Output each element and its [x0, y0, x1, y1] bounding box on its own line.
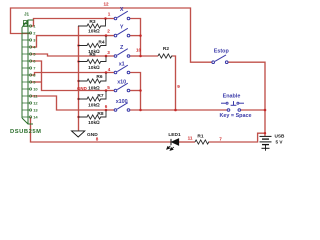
switch x100 — [114, 103, 130, 112]
resistor R4 10k — [78, 36, 106, 48]
svg-text:Estop: Estop — [214, 48, 230, 54]
pin 7 — [22, 67, 31, 69]
junction GND bus R7 — [77, 98, 79, 100]
svg-text:10kΩ: 10kΩ — [88, 120, 100, 126]
svg-text:5 V: 5 V — [276, 139, 284, 144]
svg-text:R5: R5 — [89, 52, 95, 58]
wire pin 9 stub joins row 5 riser — [31, 81, 42, 83]
wire net 9 R2 to Enable row — [173, 56, 176, 110]
junction R7 tap — [105, 89, 108, 92]
wire row 3 net 3 — [31, 54, 115, 56]
wire R1 to source net 7 — [209, 133, 265, 142]
svg-text:Enable: Enable — [223, 94, 241, 100]
switch x10 — [114, 83, 130, 92]
resistor R2 — [158, 54, 173, 58]
LED LED1 — [167, 139, 179, 150]
pushbutton Enable — [221, 101, 244, 111]
svg-text:10: 10 — [33, 87, 38, 92]
svg-text:6: 6 — [105, 104, 108, 109]
junction Enable to source bus — [264, 109, 267, 112]
junction bus row 3 — [139, 55, 142, 58]
junction net 9 to row 6 — [174, 109, 177, 112]
resistor R1 — [195, 140, 209, 144]
wire x100 row to Enable pushbutton — [130, 109, 227, 111]
switch Y — [114, 28, 130, 37]
resistor R7 10k — [78, 91, 106, 101]
svg-text:R4: R4 — [98, 39, 104, 45]
svg-text:12: 12 — [103, 1, 109, 6]
svg-text:R6: R6 — [96, 74, 102, 80]
svg-text:DSUB25M: DSUB25M — [10, 129, 42, 135]
wire LED to R1 net 11 — [179, 141, 195, 143]
wire bottom rail net 8 — [31, 117, 171, 142]
svg-text:USB: USB — [275, 134, 286, 139]
wire switch Y to bus — [130, 35, 141, 37]
svg-text:10kΩ: 10kΩ — [88, 85, 100, 91]
svg-text:R7: R7 — [97, 93, 103, 99]
junction source top — [264, 132, 266, 134]
junction GND bus R5 — [77, 60, 79, 62]
pin 10 — [22, 88, 31, 90]
pin 13 — [22, 109, 31, 111]
junction R4 tap — [105, 34, 108, 37]
svg-text:R3: R3 — [89, 19, 95, 25]
svg-text:10kΩ: 10kΩ — [88, 29, 100, 35]
junction R5 tap — [105, 55, 108, 58]
wire bus to R2 — [141, 55, 159, 57]
svg-text:7: 7 — [219, 137, 222, 142]
svg-text:LED1: LED1 — [168, 132, 181, 138]
pin 6 — [22, 60, 31, 62]
wire Enable to source bus — [241, 109, 265, 111]
svg-text:J1: J1 — [24, 11, 30, 16]
svg-text:13: 13 — [33, 108, 38, 113]
ground — [72, 131, 85, 137]
wire row 4 net 4 — [31, 73, 115, 76]
pin 8 — [22, 74, 31, 76]
svg-text:x100: x100 — [116, 99, 128, 105]
junction R8 tap — [105, 109, 108, 112]
wire switch Z to bus — [130, 55, 141, 57]
svg-text:Key = Space: Key = Space — [220, 113, 252, 119]
pin 5 — [22, 53, 31, 55]
svg-text:10kΩ: 10kΩ — [88, 65, 100, 71]
resistor R3 10k — [78, 19, 106, 28]
wire row 5 net 5 — [31, 61, 115, 91]
svg-text:R2: R2 — [163, 46, 169, 52]
svg-text:GND: GND — [77, 86, 87, 91]
junction bus row 6 — [139, 109, 142, 112]
wire x1 x10 cascade — [130, 73, 141, 111]
svg-text:x1: x1 — [119, 61, 125, 67]
junction GND bus R4 — [77, 44, 79, 46]
svg-text:8: 8 — [96, 137, 99, 142]
svg-text:9: 9 — [177, 84, 180, 89]
pin 1 — [22, 25, 31, 27]
junction bus row 5 — [139, 89, 142, 92]
svg-text:10kΩ: 10kΩ — [88, 103, 100, 109]
wire row 1 net 1 — [31, 19, 115, 27]
svg-text:2: 2 — [107, 29, 110, 34]
pin 4 — [22, 46, 31, 48]
junction GND bus R8 — [77, 116, 79, 118]
battery USB 5V — [260, 136, 272, 150]
pin 14 — [22, 116, 31, 118]
svg-text:R1: R1 — [197, 133, 203, 139]
svg-text:14: 14 — [33, 115, 38, 120]
switch Z — [114, 49, 130, 58]
resistor R5 10k — [78, 57, 106, 64]
switch X — [114, 11, 130, 20]
svg-text:R8: R8 — [97, 111, 103, 117]
wire net 12 top rail — [11, 8, 212, 62]
junction GND bus R6 — [77, 80, 79, 82]
svg-text:12: 12 — [33, 101, 38, 106]
junction bus row 2 — [139, 34, 142, 37]
wire row 6 net 6 — [31, 96, 115, 110]
svg-text:Y: Y — [120, 24, 124, 30]
svg-text:4: 4 — [108, 67, 111, 72]
junction R6 tap — [105, 71, 108, 74]
pin 2 — [22, 32, 31, 34]
switch x1 — [114, 65, 130, 74]
junction R3 tap — [104, 17, 107, 20]
pin 9 — [22, 81, 31, 83]
pin 12 — [22, 102, 31, 104]
svg-text:x10: x10 — [117, 79, 126, 85]
wire resistor bus to GND — [78, 26, 80, 130]
pin 11 — [22, 95, 31, 97]
resistor R6 10k — [78, 73, 106, 83]
svg-text:11: 11 — [188, 135, 193, 140]
svg-text:1: 1 — [108, 12, 111, 17]
svg-text:10: 10 — [136, 47, 142, 52]
svg-text:3: 3 — [107, 50, 110, 55]
switch Estop — [212, 55, 228, 64]
svg-text:5: 5 — [107, 85, 110, 90]
wire row 2 net 2 — [31, 36, 115, 47]
pin 3 — [22, 39, 31, 41]
resistor R8 10k — [78, 111, 106, 120]
connector J1 DSUB25M — [22, 20, 34, 124]
wire switch x10 to cascade — [130, 90, 141, 92]
svg-text:X: X — [120, 7, 124, 13]
wire switch common bus net 10 (X Y Z) — [130, 19, 141, 57]
wire Estop to source bus — [228, 62, 265, 136]
